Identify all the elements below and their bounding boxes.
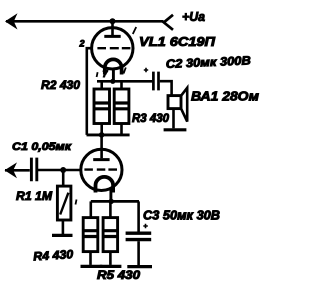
svg-text:R3 430: R3 430 <box>132 113 170 125</box>
grid (dashed) lower <box>84 168 117 170</box>
pin 9 tick upper cathode <box>124 68 126 74</box>
plus mark C2 <box>144 68 148 72</box>
node cathode junction <box>110 79 115 84</box>
terminal chevron +Ua <box>164 15 173 30</box>
resistor R1 <box>57 170 71 234</box>
pin 1 tick upper anode <box>133 27 136 34</box>
svg-text:ВА1 28Ом: ВА1 28Ом <box>191 89 259 104</box>
speaker BA1 <box>168 88 187 129</box>
ground bar R5 <box>100 265 122 268</box>
svg-text:C2 30мк 300В: C2 30мк 300В <box>166 53 252 71</box>
svg-text:+Uа: +Uа <box>182 9 205 24</box>
wire cathode lead upper <box>112 70 115 82</box>
wire upper cathode node to C2 <box>97 80 152 83</box>
svg-text:7: 7 <box>103 69 109 79</box>
capacitor C3 (electrolytic) <box>126 201 152 265</box>
wire +Ua power rail <box>6 20 164 23</box>
tube VL1 upper triode envelope <box>92 28 133 69</box>
svg-text:R5 430: R5 430 <box>97 270 141 282</box>
node lower cathode junction <box>109 199 114 204</box>
node input junction <box>60 167 66 173</box>
tube VL1 lower triode envelope <box>81 149 122 190</box>
node anode junction on rail <box>110 18 116 24</box>
svg-text:VL1 6С19П: VL1 6С19П <box>139 35 216 49</box>
svg-text:R2 430: R2 430 <box>41 78 80 92</box>
ground bar R4 <box>81 265 103 268</box>
input arrow terminal <box>5 162 18 178</box>
anode plate lower <box>93 158 109 161</box>
left arrow terminal of power rail <box>5 13 18 29</box>
ground bar C3 <box>127 265 152 268</box>
cathode arc lower <box>96 177 114 193</box>
cathode arc upper <box>105 59 122 74</box>
capacitor C1 <box>31 158 36 182</box>
wire C2 to speaker <box>160 81 172 95</box>
wire cathode lead lower <box>109 187 112 201</box>
svg-text:R4 430: R4 430 <box>33 247 74 263</box>
svg-text:C3 50мк 30В: C3 50мк 30В <box>143 209 220 223</box>
ground bar R1 <box>52 234 73 237</box>
wire resistor bottoms bar <box>87 133 130 136</box>
wire lower cathode node <box>91 200 139 203</box>
grid (dashed) upper <box>97 47 130 49</box>
pin 8 mark upper cathode <box>97 72 98 77</box>
wire anode lead upper <box>111 21 114 35</box>
svg-text:2: 2 <box>79 39 85 49</box>
node bar junction <box>99 132 105 138</box>
capacitor C2 (electrolytic) <box>153 72 158 91</box>
wire anode lead lower <box>100 149 103 158</box>
ground bar BA1 <box>164 128 187 131</box>
anode plate upper <box>104 35 120 38</box>
wire upper grid to lower anode node <box>87 48 92 135</box>
svg-text:R1 1М: R1 1М <box>16 189 53 203</box>
wire bar to lower anode <box>100 135 103 149</box>
wire C1 to lower grid <box>38 169 81 172</box>
resistor R4 <box>83 201 98 265</box>
resistor R2 <box>94 82 110 135</box>
resistor R3 <box>114 82 129 135</box>
resistor R5 <box>103 201 118 265</box>
pin mark lower cathode <box>76 200 77 205</box>
plus mark C3 <box>143 224 148 229</box>
wire input to C1 <box>5 169 30 172</box>
svg-text:C1 0,05мк: C1 0,05мк <box>12 141 73 153</box>
